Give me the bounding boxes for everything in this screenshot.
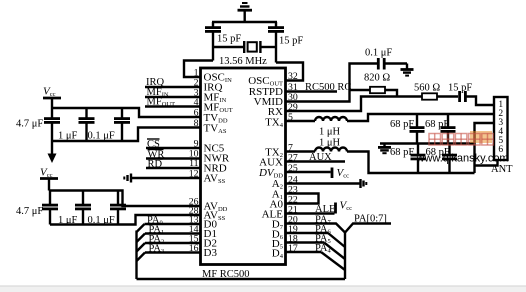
svg-text:15 pF: 15 pF xyxy=(217,34,241,45)
wire top rail of crystal xyxy=(212,21,277,23)
ground (middle rail) xyxy=(378,144,391,154)
wire TX2 node to ANT bottom pin 6 xyxy=(475,161,498,166)
net label WR (overline) xyxy=(148,150,165,161)
svg-text:www.qikansky.com: www.qikansky.com xyxy=(416,153,509,165)
svg-text:CS: CS xyxy=(147,139,160,150)
svg-text:68 pF: 68 pF xyxy=(390,119,414,130)
ground (top, inverted) xyxy=(238,3,253,23)
power symbol Vcc (lower left) xyxy=(40,167,58,191)
ground arrow (upper bank) xyxy=(48,141,57,163)
watermark text line 1 (CJK blocks) xyxy=(429,134,493,146)
wire PA bus right vertical xyxy=(344,231,346,279)
capacitor C2 1 uF (upper bank) xyxy=(79,108,95,141)
capacitor C1 4.7 uF (upper bank) xyxy=(44,108,60,141)
wire crystal left branch to pin 1 OSC_IN xyxy=(184,61,213,78)
crystal Y1 13.56 MHz xyxy=(213,41,276,53)
wire pin 21 ALE to Vcc xyxy=(286,212,335,214)
wire pin 14 D1 / PA1 with bus entry xyxy=(137,234,201,243)
watermark highlight box xyxy=(470,131,492,143)
power symbol Vcc (pin 21) xyxy=(336,200,353,214)
svg-text:1 μH: 1 μH xyxy=(319,138,341,149)
wire pin 11 nRD xyxy=(146,167,201,169)
wire pin 27 AUX net stub xyxy=(286,160,346,162)
wire pin 16 D3 / PA3 with bus entry xyxy=(137,253,201,262)
connector J1 ANT body xyxy=(494,97,508,160)
capacitor 15 pF (right of crystal) xyxy=(268,22,284,63)
inductor L2 1 uH xyxy=(315,148,347,152)
wire pin 23 A1 joined to pin 22 A0 xyxy=(286,194,319,204)
inductor L1 1 uH xyxy=(315,117,347,121)
wire pin 13 D0 / PA0 with bus entry xyxy=(137,224,201,232)
wire pin 4 MF_OUT xyxy=(145,105,201,107)
wire pin 19 D6 / PA6 with bus entry xyxy=(286,233,346,247)
capacitor 68 pF (C, TX2 lower left) xyxy=(411,144,426,174)
wire Vcc rail (lower bank) to pin 26 AVDD xyxy=(49,191,201,207)
ground (VMID decoupling) xyxy=(401,64,414,76)
wire crystal right branch to pin 32 OSC_OUT xyxy=(276,63,303,81)
svg-text:15 pF: 15 pF xyxy=(448,83,472,94)
svg-text:15 pF: 15 pF xyxy=(279,36,303,47)
capacitor 15 pF (series to antenna) xyxy=(460,91,466,102)
capacitor 68 pF (A, TX1 upper left) xyxy=(410,114,425,144)
wire pin 7 TX2 xyxy=(286,150,316,152)
wire PA bus bottom horizontal xyxy=(137,278,346,280)
svg-text:820 Ω: 820 Ω xyxy=(364,73,390,84)
resistor 820 ohm xyxy=(350,87,398,97)
wire pin 2 IRQ xyxy=(145,86,201,88)
svg-text:68 pF: 68 pF xyxy=(390,147,414,158)
wire pin 18 D5 / PA5 with bus entry xyxy=(286,243,346,260)
resistor 560 ohm xyxy=(422,93,458,99)
wire bottom rail (lower bank) to pin 28 AVSS xyxy=(50,215,201,225)
power symbol Vcc (pin 25) xyxy=(332,167,349,180)
wire pin 30 VMID up to decoupling xyxy=(286,64,378,102)
svg-text:0.1 μF: 0.1 μF xyxy=(365,48,392,59)
wire pin 29 RX to matching network xyxy=(286,97,423,112)
wire PA bus left vertical xyxy=(135,231,137,280)
power symbol Vcc (upper left) xyxy=(43,86,61,109)
svg-text:PA[0:7]: PA[0:7] xyxy=(354,214,387,225)
svg-text:4.7 μF: 4.7 μF xyxy=(16,206,43,217)
wire pin 3 MF_IN xyxy=(145,96,201,98)
capacitor 0.1 uF (VMID) xyxy=(378,58,407,70)
svg-text:RC500 RC: RC500 RC xyxy=(305,82,351,93)
wire middle ground rail xyxy=(380,142,475,144)
capacitor C3 0.1 uF (upper bank) xyxy=(114,108,130,141)
svg-text:13.56 MHz: 13.56 MHz xyxy=(219,56,267,67)
capacitor C5 1 uF (lower bank) xyxy=(75,191,91,225)
svg-text:560 Ω: 560 Ω xyxy=(414,83,440,94)
wire bottom rail (upper bank) to pin 8 TVSS xyxy=(52,128,201,142)
wire pin 25 DVDD to Vcc xyxy=(286,171,331,173)
wire pin 31 RSTPD net stub xyxy=(286,90,338,92)
svg-text:32: 32 xyxy=(288,71,298,82)
wire pin 17 D4 / PA4 with bus entry xyxy=(286,252,346,270)
wire 15 pF to ANT pin 1 xyxy=(465,97,494,106)
wire pin 5 TX1 xyxy=(286,120,316,122)
net label RD (overline) xyxy=(148,159,163,170)
net label CS (overline) xyxy=(147,139,160,150)
capacitor 15 pF (left of crystal) xyxy=(205,22,221,61)
svg-text:4.7 μF: 4.7 μF xyxy=(16,119,43,130)
svg-text:AUX: AUX xyxy=(309,152,332,163)
capacitor C4 4.7 uF (lower bank) xyxy=(42,191,58,225)
op-amp U1 chip body MF RC500 xyxy=(201,68,286,265)
wire ground rail / center tap vertical to ANT pin 3 xyxy=(475,123,495,173)
capacitor C6 0.1 uF (lower bank) xyxy=(110,191,126,225)
wire pin 9 nCS xyxy=(146,147,201,149)
wire TX2 node down and right xyxy=(347,152,475,174)
grey bottom bar xyxy=(0,286,526,292)
svg-text:1 μH: 1 μH xyxy=(319,127,341,138)
svg-text:RD: RD xyxy=(148,159,163,170)
capacitor 68 pF (B, TX1 upper right) xyxy=(441,114,456,144)
svg-text:68 pF: 68 pF xyxy=(425,119,449,130)
wire pin 15 D2 / PA2 with bus entry xyxy=(137,243,201,252)
ground (sideways, pin 24) xyxy=(361,179,367,188)
wire TX1 node to ANT pin 2 xyxy=(347,114,494,121)
wire pin 10 nWR xyxy=(146,157,201,159)
wire pin 20 D7 / PA7 with bus notch and PA[0:7] line xyxy=(286,224,392,233)
ground (sideways, pin 12) xyxy=(124,174,131,183)
svg-text:ANT: ANT xyxy=(491,164,513,175)
wire pin 24 A2 to ground xyxy=(286,182,360,184)
wire pin 12 AVSS to ground xyxy=(131,177,201,179)
capacitor 68 pF (D, TX2 lower right) xyxy=(442,144,457,174)
svg-text:ALE: ALE xyxy=(315,204,335,215)
wire Vcc rail (upper bank) to pin 6 TVDD xyxy=(52,108,201,117)
svg-text:D3: D3 xyxy=(204,247,218,259)
